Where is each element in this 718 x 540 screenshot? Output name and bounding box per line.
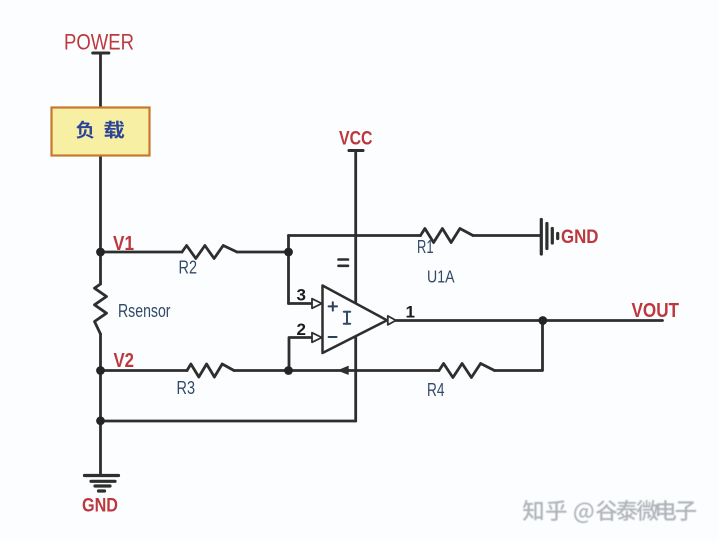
op-amp minus input marker: [329, 336, 337, 338]
node ground rail junction dot: [96, 416, 105, 425]
wire R3 to pin2 junction and on to R4: [234, 369, 439, 372]
ground symbol right GND: [541, 220, 557, 255]
resistor R4: [439, 364, 495, 378]
resistor R2: [182, 246, 237, 259]
wire Rsensor to V2 and down to ground rail: [99, 334, 102, 475]
node V2 junction dot: [96, 366, 105, 375]
pin 2 input arrow: [312, 333, 322, 343]
op-amp power pin marker =: [339, 260, 349, 266]
pin 3 input arrow: [312, 299, 322, 309]
svg-text:2: 2: [297, 320, 306, 339]
op-amp plus input marker: [329, 302, 337, 310]
svg-text:R2: R2: [179, 258, 198, 278]
wire POWER to load box: [99, 53, 102, 108]
power flag bar POWER: [93, 51, 109, 54]
wire R4 to VOUT node: [495, 321, 543, 371]
svg-text:V1: V1: [113, 233, 134, 255]
svg-text:R1: R1: [417, 237, 434, 257]
resistor Rsensor: [95, 284, 107, 334]
op-amp U1A: [312, 260, 396, 354]
watermark 知乎 @谷泰微电子: [0, 0, 1, 1]
load box 负载: [52, 108, 150, 156]
svg-text:GND: GND: [82, 496, 118, 517]
power flag bar VCC: [349, 149, 363, 152]
svg-text:VCC: VCC: [339, 129, 373, 150]
svg-text:R4: R4: [427, 380, 445, 400]
svg-text:U1A: U1A: [427, 267, 455, 287]
resistor R3: [187, 364, 234, 377]
wire V1 to R2: [101, 251, 183, 254]
resistor R1: [421, 229, 474, 243]
svg-text:R3: R3: [177, 378, 196, 398]
op-amp gate number I: [344, 312, 350, 324]
svg-text:V2: V2: [114, 350, 135, 372]
wire junction to R1: [289, 234, 421, 237]
wire bottom rail to GND line: [101, 420, 356, 423]
wire VCC down to negative rail: [354, 151, 357, 422]
wire junction vertical up and down to pin 3: [287, 236, 290, 304]
wire into pin 2: [289, 338, 312, 371]
wire R2 to junction node: [237, 251, 289, 254]
wire R1 to GND symbol: [473, 234, 541, 237]
svg-text:GND: GND: [561, 226, 599, 248]
wire into pin 3: [289, 302, 313, 305]
node VOUT junction dot: [538, 316, 547, 325]
wire V2 to R3: [101, 369, 188, 372]
pin 1 output arrow: [388, 316, 396, 325]
feedback arrow on wire: [338, 366, 348, 374]
svg-text:POWER: POWER: [64, 30, 134, 55]
svg-text:1: 1: [406, 302, 415, 321]
svg-text:VOUT: VOUT: [632, 300, 680, 322]
svg-text:3: 3: [297, 286, 306, 305]
wire op-amp output to VOUT: [396, 319, 663, 322]
node R2 right junction dot: [284, 248, 293, 257]
svg-text:Rsensor: Rsensor: [118, 300, 171, 321]
wire load box to node V1: [99, 156, 102, 285]
ground symbol bottom GND: [85, 476, 119, 492]
node V1 junction dot: [96, 248, 105, 257]
node R3 pin2 junction dot: [284, 366, 293, 375]
